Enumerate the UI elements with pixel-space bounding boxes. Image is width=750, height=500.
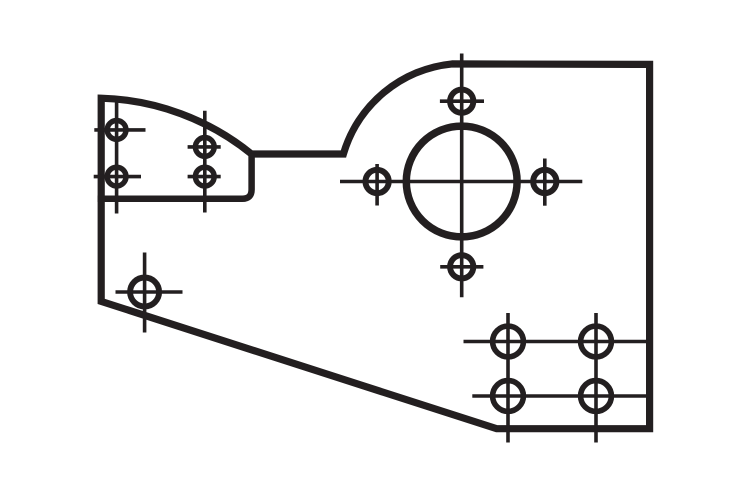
centerline H7 vertical <box>543 159 547 206</box>
hole H10 grid top-left <box>493 326 524 357</box>
hole H1 tab top-left <box>107 120 126 139</box>
centerline grid column2 vertical <box>594 313 598 443</box>
centerline H3 horizontal <box>188 145 221 149</box>
big bore circle <box>406 126 517 237</box>
hole H4 tab bottom-right <box>195 167 214 186</box>
hole H11 grid top-right <box>581 326 612 357</box>
hole H7 right of bore <box>533 170 556 193</box>
centerline horizontal main <box>340 180 582 184</box>
hole H3 tab top-right <box>195 138 214 157</box>
hole H5 top of bore <box>450 90 473 113</box>
centerline grid row1 horizontal <box>464 340 651 344</box>
interior bend line <box>98 154 252 199</box>
centerline H2 horizontal <box>94 175 141 179</box>
hole H6 left of bore <box>365 170 388 193</box>
centerline grid row2 horizontal <box>472 394 650 398</box>
centerline H6 vertical <box>375 164 379 206</box>
centerline grid column1 vertical <box>506 313 510 443</box>
centerline H1 horizontal <box>94 128 145 132</box>
centerline H8 horizontal <box>440 265 483 269</box>
hole H12 grid bottom-left <box>493 381 524 412</box>
centerline H9 vertical <box>143 253 147 333</box>
centerline tab column2 vertical <box>203 111 207 213</box>
hole H8 below bore <box>450 255 473 278</box>
centerline vertical main <box>460 54 464 298</box>
hole H13 grid bottom-right <box>581 381 612 412</box>
centerline H5 horizontal <box>440 99 484 103</box>
hole H9 lone left <box>130 278 159 307</box>
part outline <box>101 64 649 429</box>
centerline H9 horizontal <box>116 290 183 294</box>
centerline H4 horizontal <box>188 175 221 179</box>
centerline tab column1 vertical <box>115 101 119 214</box>
hole H2 tab bottom-left <box>107 167 126 186</box>
